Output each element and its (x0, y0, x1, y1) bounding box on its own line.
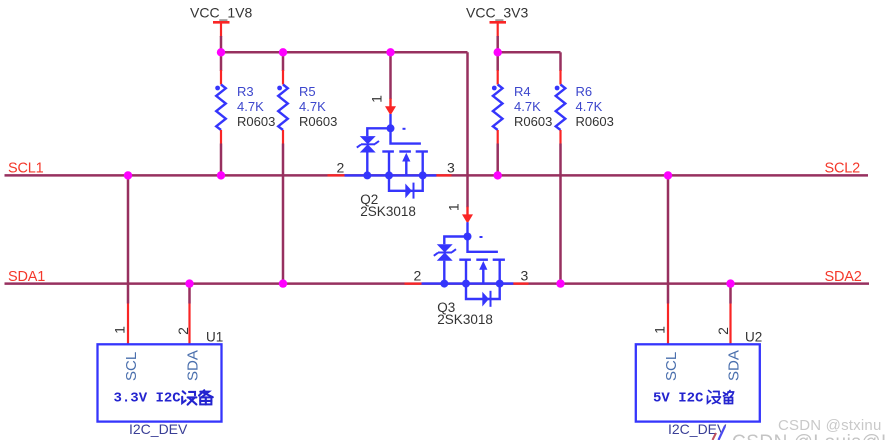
svg-text:SCL: SCL (123, 352, 140, 381)
svg-text:3.3V I2C: 3.3V I2C (114, 391, 182, 407)
Q2 drain leg (422, 152, 424, 176)
resistor R5 (277, 52, 288, 283)
svg-text:R0603: R0603 (576, 114, 614, 129)
node SCL1/U1 (124, 171, 132, 179)
svg-text:SDA1: SDA1 (8, 269, 45, 285)
svg-text:VCC_3V3: VCC_3V3 (466, 5, 528, 21)
wire SCL bus horizontal (5, 174, 869, 177)
Q3 terminal dots (440, 280, 448, 288)
Q3 pin1 arrow (466, 207, 468, 216)
Q3 pin2 red lead (405, 282, 422, 284)
svg-text:1: 1 (446, 203, 462, 211)
svg-text:R0603: R0603 (237, 114, 275, 129)
svg-text:SDA: SDA (185, 350, 202, 381)
svg-text:R0603: R0603 (299, 114, 337, 129)
svg-text:R4: R4 (514, 84, 531, 99)
svg-text:R0603: R0603 (514, 114, 552, 129)
Q2 pin3 red lead (436, 174, 451, 176)
Q2 zener to source wire (366, 153, 368, 176)
Q2 channel bar dashed (382, 150, 428, 152)
Q3 gate bar (468, 237, 498, 252)
svg-text:I2C_DEV: I2C_DEV (668, 421, 727, 437)
R6 value labels (576, 84, 614, 129)
node VCC_1V8/R3 (217, 48, 225, 56)
Q3 gate node (466, 222, 468, 236)
U1 device name CJK 设备 (182, 390, 213, 404)
wire Q2 gate feed (389, 52, 392, 99)
svg-text:2: 2 (414, 268, 422, 284)
node VCC_3V3/R4 (494, 48, 502, 56)
Q2 pin1 arrow (389, 99, 391, 108)
svg-text:2SK3018: 2SK3018 (360, 204, 416, 219)
node SCL1/R3 (217, 171, 225, 179)
node SDA1/U1 (185, 279, 193, 287)
svg-text:3: 3 (447, 160, 455, 176)
wire Q3 gate feed (466, 52, 469, 207)
Q2 gate bar (391, 128, 421, 143)
node SDA1/R5 (279, 279, 287, 287)
svg-text:SDA2: SDA2 (825, 269, 862, 285)
junction dots magenta (124, 48, 735, 288)
resistor R6 (555, 52, 566, 283)
Q2 zener diode (357, 136, 379, 152)
Q3 zener branch (444, 237, 467, 245)
node SDA2/R6 (556, 279, 564, 287)
R3 value labels (237, 84, 275, 129)
svg-text:1: 1 (112, 326, 128, 334)
svg-text:2SK3018: 2SK3018 (437, 312, 493, 327)
svg-text:1: 1 (369, 95, 385, 103)
Q2 zener branch (367, 128, 390, 136)
svg-text:I2C_DEV: I2C_DEV (129, 421, 188, 437)
Q2 terminal dots (363, 171, 371, 179)
svg-text:4.7K: 4.7K (299, 99, 326, 114)
Q2 bulk arrow (402, 153, 410, 176)
svg-text:2: 2 (175, 327, 191, 335)
IC U2 5V I2C device (636, 326, 762, 422)
node SDA2/U2 (726, 279, 734, 287)
svg-text:R5: R5 (299, 84, 316, 99)
svg-text:2: 2 (337, 160, 345, 176)
Q3 body horizontal (422, 282, 514, 284)
svg-text:SDA: SDA (726, 350, 743, 381)
U2 device name CJK 设备 (708, 391, 734, 404)
Q3 speck (480, 236, 483, 238)
wire VCC_3V3 rail (498, 51, 561, 54)
node rail/R5 (279, 48, 287, 56)
Q3 channel bar dashed (459, 259, 505, 261)
Q2 body diode (389, 175, 423, 198)
Q3 drain leg (499, 260, 501, 284)
svg-text:4.7K: 4.7K (237, 99, 264, 114)
node SCL2/U2 (664, 171, 672, 179)
R4 value labels (514, 84, 552, 129)
Q3 zener to source wire (443, 261, 445, 284)
resistor R4 (492, 52, 503, 175)
Q3 bulk arrow (479, 261, 487, 284)
Q2 gate node (389, 114, 391, 128)
wire U1 SDA vertical (188, 284, 191, 345)
watermark check mark (713, 426, 726, 440)
svg-text:R3: R3 (237, 84, 254, 99)
U1 box (98, 344, 222, 421)
Q3 zener diode (434, 244, 456, 260)
Q2 pin2 red lead (328, 174, 345, 176)
svg-text:CSDN @Louis@LMHW: CSDN @Louis@LMHW (732, 432, 887, 440)
Q2 speck (403, 128, 406, 130)
power symbol VCC_1V8 (190, 5, 252, 53)
transistor Q3 2SK3018 (405, 203, 529, 327)
svg-text:VCC_1V8: VCC_1V8 (190, 5, 252, 21)
wire U2 SDA vertical (729, 284, 732, 345)
node SCL2/R4 (494, 171, 502, 179)
svg-text:SCL1: SCL1 (8, 161, 44, 177)
wire U2 SCL vertical (667, 175, 670, 344)
wire VCC_1V8 rail (221, 51, 468, 54)
node rail/Q2 gate (386, 48, 394, 56)
svg-text:SCL: SCL (663, 352, 680, 381)
svg-text:3: 3 (521, 268, 529, 284)
Q3 body diode (466, 284, 500, 307)
Q3 pin3 red lead (513, 282, 528, 284)
svg-text:U1: U1 (206, 330, 223, 345)
svg-text:5V I2C: 5V I2C (653, 391, 704, 407)
U2 box (636, 344, 760, 421)
Q3 source leg (465, 260, 467, 284)
wire U1 SCL vertical (127, 175, 130, 344)
svg-text:1: 1 (652, 326, 668, 334)
Q2 source leg (388, 152, 390, 176)
transistor Q2 2SK3018 (328, 95, 456, 219)
Q2 body horizontal (345, 174, 437, 176)
R5 value labels (299, 84, 337, 129)
svg-text:U2: U2 (745, 330, 762, 345)
svg-text:R6: R6 (576, 84, 593, 99)
resistor R3 (215, 52, 226, 175)
svg-text:2: 2 (715, 327, 731, 335)
wire SDA bus horizontal (5, 282, 870, 285)
IC U1 3.3V I2C device (98, 326, 224, 422)
power symbol VCC_3V3 (466, 5, 528, 53)
svg-text:4.7K: 4.7K (514, 99, 541, 114)
svg-text:4.7K: 4.7K (576, 99, 603, 114)
svg-text:SCL2: SCL2 (825, 161, 861, 177)
